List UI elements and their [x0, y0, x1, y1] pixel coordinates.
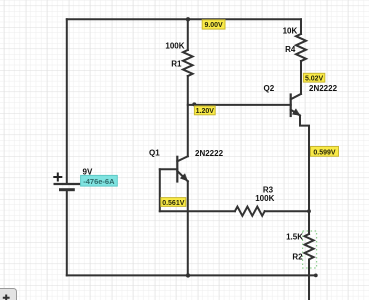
- current label -476e-6A: [81, 175, 118, 186]
- zoom button: [0, 289, 17, 300]
- wire top rail: [67, 18, 301, 20]
- wire Q2 emitter jog: [300, 116, 309, 212]
- voltage label 0.599V: [311, 147, 339, 157]
- resistor R2 body: [305, 234, 314, 262]
- svg-text:9.00V: 9.00V: [204, 22, 223, 29]
- svg-text:100K: 100K: [165, 41, 184, 50]
- wire R2 bottom off-screen: [308, 262, 310, 300]
- svg-text:R2: R2: [292, 252, 303, 261]
- svg-text:2N2222: 2N2222: [195, 149, 224, 158]
- wire R3 right to node: [265, 210, 309, 212]
- svg-text:5.02V: 5.02V: [305, 76, 324, 83]
- svg-text:Q2: Q2: [264, 84, 275, 93]
- wire Q2 collector to R4: [300, 61, 302, 94]
- wire left rail lower: [66, 190, 68, 276]
- selection box around R2: [303, 231, 317, 268]
- junction node R3 right: [307, 209, 311, 213]
- voltage label 9.00V: [202, 20, 225, 29]
- wire base branch to Q2: [188, 104, 291, 106]
- svg-text:1.20V: 1.20V: [196, 108, 215, 115]
- wire Q1 emitter down: [187, 181, 189, 275]
- voltage label 0.561V: [161, 198, 186, 207]
- wire Q1 feedback loop down: [159, 169, 161, 211]
- svg-text:-476e-6A: -476e-6A: [83, 177, 115, 186]
- svg-text:0.561V: 0.561V: [162, 200, 185, 207]
- svg-text:R4: R4: [285, 45, 296, 54]
- transistor Q1: [177, 156, 188, 181]
- junction node on base branch: [192, 102, 196, 106]
- wire R4 top to rail: [300, 19, 302, 34]
- junction node at top rail: [186, 17, 190, 21]
- svg-text:R1: R1: [171, 59, 182, 68]
- wire main vertical (R1 branch): [187, 19, 189, 50]
- resistor R3 body: [235, 207, 265, 216]
- resistor R1 body: [183, 50, 193, 76]
- wire Q1 base: [160, 168, 178, 170]
- wire node to R2: [308, 211, 310, 234]
- wire feedback to R3: [160, 210, 235, 212]
- endpoint node bottom rail: [314, 274, 318, 278]
- svg-text:0.599V: 0.599V: [313, 150, 336, 157]
- voltage label 5.02V: [303, 73, 324, 82]
- svg-text:2N2222: 2N2222: [309, 84, 338, 93]
- svg-text:100K: 100K: [255, 194, 274, 203]
- wire left rail upper: [66, 19, 68, 184]
- svg-text:Q1: Q1: [149, 149, 160, 158]
- svg-text:10K: 10K: [283, 27, 298, 36]
- transistor Q2: [291, 94, 301, 116]
- wire R1 bottom to Q1 collector: [187, 76, 189, 156]
- voltage label 1.20V: [194, 106, 215, 115]
- junction node Q1 emitter bottom: [186, 273, 190, 277]
- wire bottom rail: [67, 274, 316, 276]
- battery V1: [53, 173, 80, 190]
- svg-text:1.5K: 1.5K: [286, 232, 303, 241]
- resistor R4 body: [296, 34, 306, 61]
